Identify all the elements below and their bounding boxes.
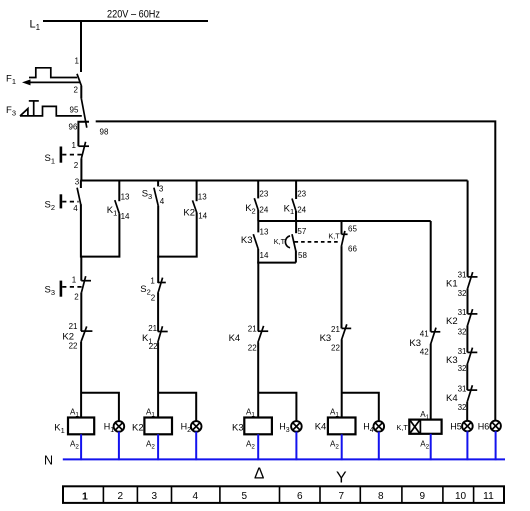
KT delay arc [285, 236, 290, 248]
wire bus to lamp chain [467, 181, 469, 277]
contact K3 41/42 (NC) [409, 328, 440, 357]
wire S3 4 to junction [157, 206, 159, 283]
svg-text:Y: Y [336, 470, 347, 487]
F1 trip pulse symbol [29, 68, 77, 78]
K1 21/22 blade [158, 326, 163, 342]
F1 trip arrow [28, 81, 80, 83]
svg-text:1: 1 [75, 57, 80, 66]
K1 13/14 top stub [118, 181, 120, 202]
svg-text:K3: K3 [320, 333, 332, 344]
svg-text:4: 4 [193, 491, 199, 502]
svg-text:220V – 60Hz: 220V – 60Hz [107, 9, 160, 21]
wire K4 A2 to N [341, 434, 343, 460]
wire H4 to N [378, 432, 380, 461]
contact S2' (NC) [140, 277, 166, 303]
S1 button actuator [60, 147, 63, 163]
KT 65 crossbar [342, 233, 348, 235]
K2 23/24 top stub [257, 181, 259, 199]
K1 31/32 crossbar [468, 276, 478, 278]
wire K1 22 to coil K2 [157, 342, 159, 417]
lamp H1 [104, 421, 124, 434]
K3 21/22 blade [342, 324, 347, 339]
svg-text:H5: H5 [450, 422, 462, 432]
svg-text:K2: K2 [183, 207, 195, 218]
svg-text:K2: K2 [132, 422, 144, 433]
wire K1 A2 to N [80, 434, 82, 460]
svg-text:2: 2 [151, 294, 156, 303]
contact K1 21/22 (NC interlock) [142, 324, 168, 351]
S2' blade [158, 278, 163, 294]
svg-text:24: 24 [297, 206, 306, 215]
svg-text:10: 10 [455, 491, 467, 502]
contact K3 13/14 [241, 221, 269, 260]
svg-text:32: 32 [458, 289, 467, 298]
contact K3 31/32 (NC) [446, 347, 477, 373]
svg-text:32: 32 [458, 364, 467, 373]
K4 31/32 crossbar [467, 389, 477, 391]
svg-text:22: 22 [248, 343, 257, 352]
wire K2 14 to junction [157, 212, 197, 256]
wire K3/KT bottom link [257, 262, 296, 264]
F3 T symbol [29, 100, 39, 102]
lamp H4 [363, 421, 384, 434]
contact K1 23/24 [284, 181, 307, 217]
svg-text:21: 21 [69, 322, 78, 331]
S3 3/4 top stub [157, 181, 159, 187]
wire S2' to K1 21 [157, 293, 159, 332]
K3 13/14 top stub [257, 221, 259, 232]
K4 21/22 crossbar [258, 330, 268, 332]
wire K1 24 to sub-bus [295, 211, 297, 221]
svg-text:4: 4 [73, 204, 78, 213]
S3 button actuator [60, 281, 63, 297]
svg-text:58: 58 [298, 251, 307, 260]
svg-text:31: 31 [458, 347, 467, 356]
wire chain 32-31 [466, 326, 468, 353]
svg-text:21: 21 [248, 325, 257, 334]
wire chain 32-31 [467, 289, 469, 314]
svg-text:14: 14 [121, 212, 130, 221]
pushbutton S1 (NC stop) [45, 141, 90, 170]
svg-text:K3: K3 [241, 235, 253, 246]
svg-text:3: 3 [75, 177, 80, 186]
svg-text:1: 1 [150, 277, 155, 286]
K1 23/24 blade [292, 199, 296, 211]
coil K3 [232, 408, 272, 451]
svg-text:13: 13 [260, 228, 269, 237]
svg-text:65: 65 [348, 224, 357, 233]
wire net 98 to H6 branch [96, 121, 496, 421]
svg-text:N: N [44, 454, 53, 468]
K2 21/22 blade [81, 326, 87, 342]
wire K3 42 to coil KT [430, 344, 432, 420]
svg-text:31: 31 [458, 385, 467, 394]
wire S1 to node 3 [80, 158, 82, 180]
wire KT A2 to N [430, 434, 432, 460]
coil K1 [54, 408, 94, 451]
wire K2 A2 to N [157, 434, 159, 460]
S3 blade [81, 276, 85, 293]
96 terminal bracket [78, 122, 89, 146]
wire K3 22 to coil K4 [341, 340, 343, 418]
wire lamp feed H3 [258, 393, 296, 422]
timer coil K,T [397, 410, 442, 450]
wire K3 coil branch down [257, 263, 259, 332]
wire H5 to N [466, 431, 468, 460]
breaker F1 [6, 57, 82, 95]
svg-text:13: 13 [198, 193, 207, 202]
K1 23/24 top stub [295, 181, 297, 200]
svg-text:K4: K4 [229, 333, 241, 344]
svg-text:14: 14 [198, 212, 207, 221]
svg-text:K,T: K,T [274, 237, 286, 246]
wire lamp feed H1 [81, 393, 119, 422]
svg-text:98: 98 [100, 127, 109, 136]
svg-text:K3: K3 [232, 422, 244, 433]
svg-text:1: 1 [72, 141, 77, 150]
branch S3 3/4 [142, 181, 165, 207]
wire F1 to F3 pin 95 [80, 86, 82, 98]
KT 57 top stub [295, 221, 297, 233]
K2 13/14 blade [193, 200, 197, 212]
svg-text:57: 57 [297, 227, 306, 236]
K3 31/32 blade [467, 348, 472, 365]
svg-text:41: 41 [420, 330, 429, 339]
wire K3 A2 to N [257, 434, 259, 460]
K3 21/22 crossbar [342, 327, 352, 329]
wire K2 24 to sub-bus [257, 210, 259, 221]
wire K3 14 to coil node [257, 249, 259, 263]
svg-text:K4: K4 [446, 393, 458, 404]
contact K1 13/14 (seal-in) [107, 181, 130, 221]
svg-text:Δ: Δ [254, 466, 264, 483]
K2 13/14 top stub [196, 181, 198, 202]
svg-text:K,T: K,T [397, 423, 409, 432]
wire chain 32-31 [466, 364, 468, 390]
svg-text:5: 5 [242, 491, 248, 502]
lamp H6 [478, 421, 501, 432]
wire H2 to N [195, 432, 197, 461]
node sub-bus [258, 220, 431, 222]
wire H3 to N [295, 432, 297, 461]
svg-text:3: 3 [152, 491, 158, 502]
contact K4 21/22 (NC interlock) [229, 325, 269, 353]
F3 contact blade [81, 98, 87, 127]
S1 blade [81, 142, 85, 159]
svg-text:23: 23 [297, 189, 306, 198]
svg-text:21: 21 [331, 325, 340, 334]
S2 button actuator [60, 194, 63, 208]
svg-text:66: 66 [348, 245, 357, 254]
S1 crossbar [78, 145, 89, 147]
svg-text:2: 2 [74, 86, 79, 95]
K1 21/22 crossbar [158, 331, 168, 333]
svg-text:1: 1 [82, 491, 88, 503]
svg-text:K4: K4 [315, 422, 327, 433]
wire KT 58 down [295, 250, 297, 262]
wire dashed timer link [295, 241, 340, 243]
lamp H2 [181, 421, 202, 434]
wire K1 14 to seal junction [80, 214, 119, 257]
svg-text:11: 11 [483, 490, 494, 502]
svg-text:13: 13 [121, 193, 130, 202]
node N neutral rail [44, 454, 505, 468]
svg-text:22: 22 [149, 342, 158, 351]
F1 contact blade [77, 74, 82, 86]
contact K2 13/14 (seal-in) [183, 181, 207, 221]
wire lamp feed H2 [158, 393, 196, 422]
wire K2 22 to coil K1 [80, 342, 82, 418]
K3 31/32 crossbar [467, 351, 477, 353]
wire KT 66 to K3 21 [341, 246, 343, 328]
wire S2 to seal junction [80, 204, 82, 257]
svg-text:31: 31 [458, 271, 467, 280]
svg-text:6: 6 [297, 491, 303, 502]
wire S3 to K2 21 [80, 293, 82, 332]
wire L1 down to F1 pin 1 [80, 21, 82, 72]
svg-text:8: 8 [378, 491, 384, 502]
svg-text:7: 7 [339, 491, 345, 502]
node 3 bus [80, 180, 467, 182]
svg-text:23: 23 [259, 189, 268, 198]
svg-text:K,T: K,T [328, 232, 340, 241]
pushbutton S2 (NO start) [45, 181, 81, 213]
contact K1 31/32 (NC) [446, 271, 478, 299]
K4 21/22 blade [258, 326, 264, 343]
contact K4 31/32 (NC) [446, 385, 477, 412]
S3 crossbar [81, 280, 91, 282]
contact K2 23/24 [245, 181, 269, 216]
wire sub-bus to K3 41 [430, 221, 432, 332]
svg-text:3: 3 [159, 184, 164, 193]
coil K4 [315, 408, 356, 451]
node L1 supply rail [30, 19, 209, 33]
terminal strip [63, 486, 504, 503]
svg-text:24: 24 [259, 206, 268, 215]
timer contact K,T 57/58 (on-delay NO) [274, 221, 308, 260]
K1 31/32 blade [468, 272, 473, 289]
svg-text:21: 21 [148, 324, 157, 333]
wire K4 22 to coil K3 [257, 342, 259, 417]
S3 3/4 blade [154, 188, 158, 206]
svg-text:K3: K3 [446, 355, 458, 366]
svg-text:32: 32 [458, 403, 467, 412]
svg-text:K1: K1 [446, 278, 458, 289]
F3 actuator triangle [20, 109, 28, 116]
svg-text:22: 22 [69, 341, 78, 350]
svg-text:95: 95 [70, 106, 79, 115]
svg-text:2: 2 [74, 161, 79, 170]
KT 65/66 blade [341, 231, 345, 246]
K3 13/14 blade [253, 234, 258, 249]
contact K2 21/22 (NC interlock) [62, 322, 92, 350]
svg-text:42: 42 [420, 348, 429, 357]
svg-text:4: 4 [160, 197, 165, 206]
K3 41/42 blade [431, 328, 436, 344]
S2 top stub [80, 181, 82, 189]
wire H6 to N [495, 431, 497, 460]
pushbutton S3 (NC) [45, 275, 92, 301]
svg-text:31: 31 [458, 308, 467, 317]
K2 23/24 blade [254, 198, 258, 210]
svg-text:H6: H6 [478, 422, 490, 432]
wire seal junction to S3 [80, 257, 82, 281]
K4 31/32 blade [467, 385, 472, 402]
K2 21/22 crossbar [81, 330, 92, 332]
wire lamp feed H4 [342, 393, 379, 422]
thermal overload relay contact F3 [6, 98, 109, 146]
svg-text:22: 22 [331, 344, 340, 353]
lamp H5 [450, 421, 472, 432]
S2' crossbar [158, 282, 166, 284]
svg-text:32: 32 [458, 328, 467, 337]
K2 31/32 crossbar [468, 313, 478, 315]
contact K2 31/32 (NC) [446, 308, 477, 337]
timer contact K,T 65/66 (delayed) [328, 221, 357, 254]
svg-text:96: 96 [69, 123, 78, 132]
F3 pulse symbol [20, 106, 82, 116]
contact K3 21/22 (NC interlock) [320, 324, 352, 352]
svg-text:2: 2 [74, 293, 79, 302]
KT 65 top stub [341, 221, 343, 234]
svg-text:1: 1 [72, 275, 77, 284]
wire chain to lamp H5 [466, 402, 468, 421]
KT 57/58 blade [292, 234, 296, 250]
svg-text:2: 2 [118, 491, 124, 502]
wire H1 to N [118, 432, 120, 461]
svg-text:9: 9 [420, 491, 426, 502]
svg-text:K2: K2 [446, 316, 458, 327]
K3 41/42 crossbar [431, 331, 441, 333]
K2 31/32 blade [467, 309, 472, 326]
svg-text:14: 14 [260, 251, 269, 260]
lamp H3 [279, 421, 302, 434]
S2 blade [77, 188, 81, 205]
coil K2 [132, 408, 172, 451]
